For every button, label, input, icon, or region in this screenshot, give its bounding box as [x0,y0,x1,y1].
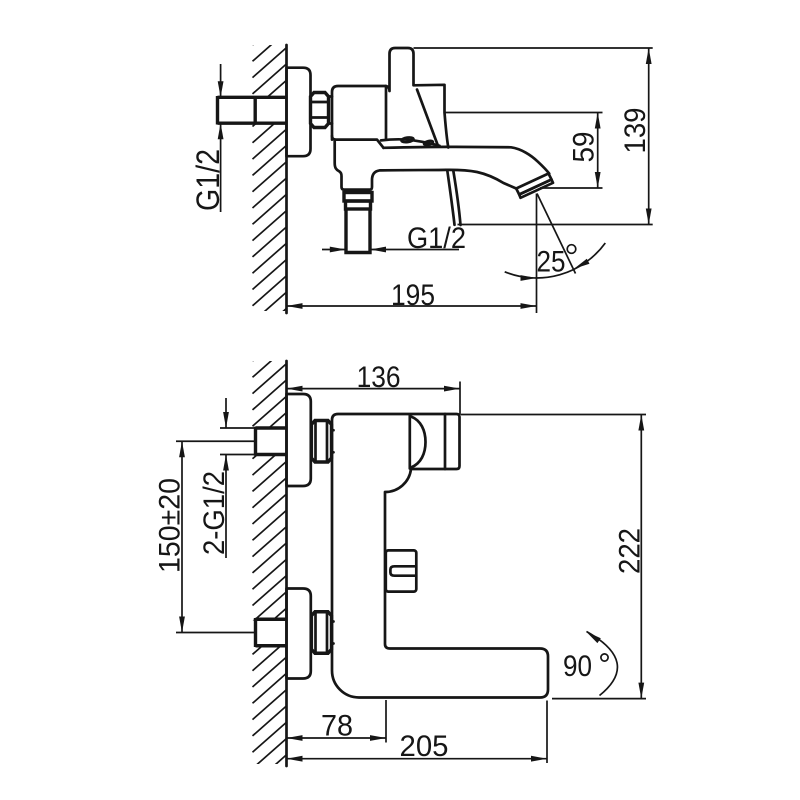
dome arc of cartridge cover [411,417,426,468]
handle cap inner line [444,414,447,469]
dim G1/2 (left, inlet) [220,64,222,97]
dim 78 [385,700,387,743]
inlet pipe 1 [220,427,256,429]
centerline pipe 1 [176,440,256,442]
spout base / foot outline [335,140,517,190]
valve body block with handle collar (top view) [332,48,448,148]
25 degree angle [537,194,576,274]
svg-text:2-G1/2: 2-G1/2 [198,471,231,555]
cartridge boundary line [385,86,388,140]
dim 195 [536,194,538,314]
svg-text:150±20: 150±20 [154,478,187,573]
dim 205 [546,701,548,764]
hex nut 2 [311,612,331,654]
dim G1/2 (shower outlet) [322,249,346,251]
svg-text:195: 195 [391,279,435,312]
dim 139 [414,47,653,49]
dim 59 [445,112,603,114]
90 degree swing arc [587,632,618,696]
wall hatching (top view) [253,15,287,355]
wall hatching (bottom view) [253,331,287,800]
dome chord line [408,416,411,469]
wall surface line [285,45,288,313]
spout top edge [384,147,550,174]
dim 150±20 [181,441,183,632]
hex nut (top view) [311,93,329,128]
stub between nut and body [329,95,333,98]
dim 136 [459,382,461,416]
svg-text:25: 25 [537,246,566,279]
svg-text:90: 90 [563,650,592,683]
svg-text:222: 222 [614,528,647,574]
escutcheon 1 [287,394,311,486]
svg-text:78: 78 [321,710,353,743]
collar diagonal [417,90,438,145]
svg-text:205: 205 [400,730,449,763]
dim 222 [461,414,646,416]
diverter knob [386,550,417,591]
hex nut 1 [311,421,331,463]
inlet pipe 2 [256,618,287,621]
inlet pipe G1/2 (top view) [218,96,287,99]
shower outlet pipe [346,209,370,253]
svg-text:G1/2: G1/2 [407,222,466,255]
dim 2-G1/2 [225,398,227,428]
svg-text:136: 136 [357,361,401,394]
collar bottom slant with ellipse details [381,139,440,145]
svg-text:139: 139 [619,108,652,154]
aerator tip [516,174,551,195]
escutcheon 2 [287,589,311,679]
wall surface line [285,361,288,766]
body outline (plan) [332,414,548,698]
white fill inside inlet pipe crossing wall [252,99,287,123]
shower outlet connector bands [344,193,372,202]
svg-text:G1/2: G1/2 [190,149,226,211]
centerline pipe 2 [176,632,256,634]
outlet pipe double curve behind spout [447,171,454,225]
escutcheon plate (top view) [287,68,311,157]
svg-text:59: 59 [568,132,601,163]
